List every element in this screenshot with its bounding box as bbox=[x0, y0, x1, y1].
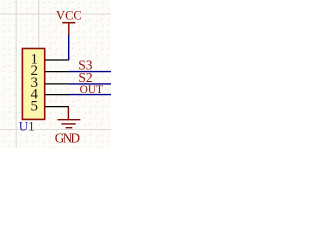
power port GND bbox=[58, 107, 81, 128]
svg-text:GND: GND bbox=[55, 131, 80, 146]
svg-text:S2: S2 bbox=[78, 70, 92, 85]
svg-text:U1: U1 bbox=[19, 119, 35, 134]
wire: pin2 (black pin + blue net S3) bbox=[45, 71, 69, 73]
wire: pin4 (black pin + blue net OUT) bbox=[45, 94, 69, 96]
wire: pin5 horizontal (black) bbox=[45, 106, 68, 109]
wire: pin3 (black pin + blue net S2) bbox=[45, 83, 69, 85]
svg-text:VCC: VCC bbox=[56, 9, 82, 23]
sheet background bbox=[0, 0, 111, 148]
component U1 body bbox=[22, 49, 44, 120]
wire: pin1 horizontal (black) bbox=[45, 59, 68, 61]
power port VCC bbox=[62, 23, 75, 35]
wire: VCC riser (blue) bbox=[68, 35, 70, 61]
sheet reference lines bbox=[0, 0, 111, 148]
svg-text:OUT: OUT bbox=[80, 84, 103, 96]
grid dots bbox=[0, 0, 111, 148]
svg-text:5: 5 bbox=[31, 98, 39, 114]
